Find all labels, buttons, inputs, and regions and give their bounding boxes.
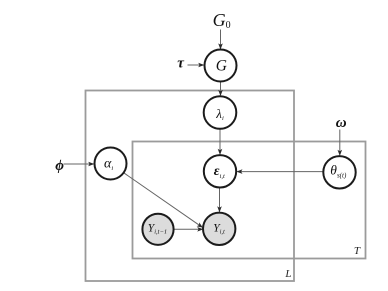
svg-text:ϕ: ϕ bbox=[55, 158, 64, 174]
svg-text:L: L bbox=[284, 268, 291, 280]
svg-text:ω: ω bbox=[336, 115, 347, 131]
svg-text:T: T bbox=[354, 245, 361, 257]
svg-text:G: G bbox=[216, 57, 227, 74]
